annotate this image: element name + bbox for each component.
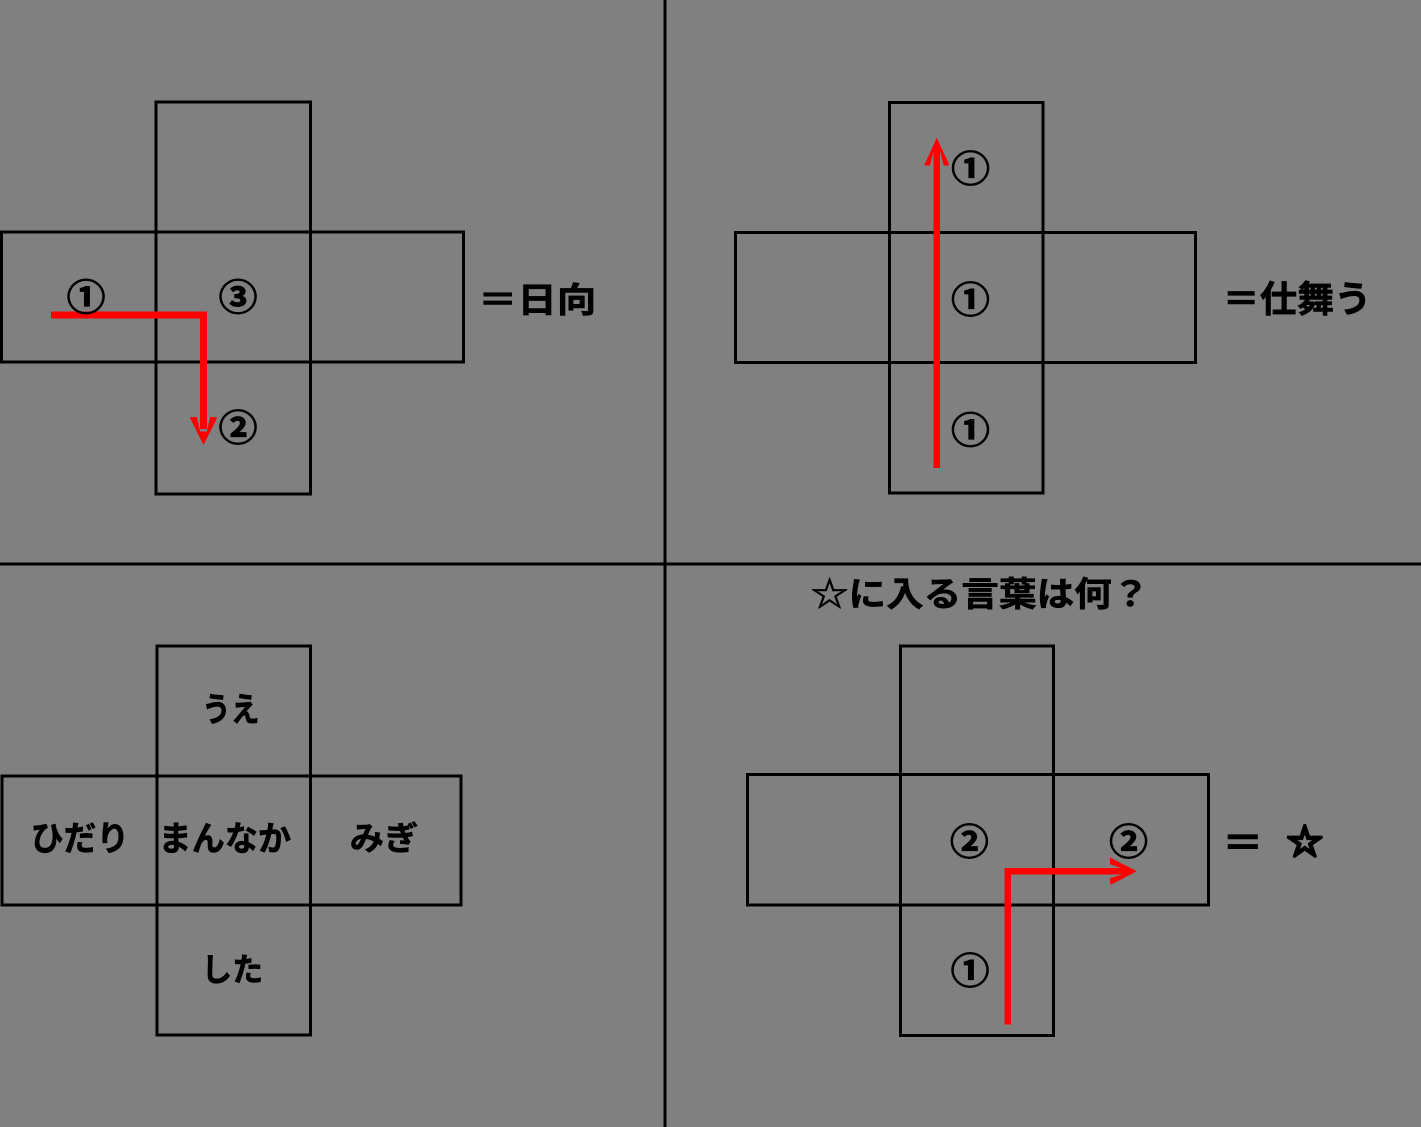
circled 2 in Q4 center cell — [951, 824, 988, 859]
text =Hinata (Q1 equation) — [484, 283, 593, 316]
Q2 red arrow shaft — [934, 149, 941, 469]
title question text (Q4) — [812, 577, 1140, 610]
text ue (Q3 top box) — [206, 694, 257, 724]
quadrant divider vertical — [664, 0, 667, 1127]
circled 2 in Q4 right cell — [1110, 824, 1147, 859]
Q1 middle row — [2, 232, 464, 362]
Q3 middle row — [2, 776, 461, 905]
circled 1 in Q2 center cell — [952, 282, 989, 317]
Q4 bottom box — [901, 905, 1054, 1036]
Q3 bottom box — [157, 905, 311, 1035]
circled 1 in Q1 left cell — [68, 279, 105, 314]
text migi (Q3 right cell) — [351, 821, 417, 852]
Q1 top box — [156, 102, 311, 232]
Q1 middle row inner line left — [155, 232, 158, 362]
Q3 middle row inner line right — [309, 776, 312, 905]
Q1 red arrow shaft — [51, 315, 204, 429]
Q3 middle row inner line left — [156, 776, 159, 905]
equals sign (Q4 equation) — [1228, 835, 1257, 849]
text mannaka (Q3 center cell) — [164, 822, 291, 853]
circled 2 in Q1 bottom box — [220, 410, 257, 445]
Q4 middle row inner line left — [899, 775, 902, 906]
Q2 bottom box — [890, 363, 1044, 494]
Q4 middle row inner line right — [1052, 775, 1055, 906]
Q2 red arrow head — [924, 138, 949, 166]
Q2 middle row inner line left — [888, 233, 891, 363]
Q2 middle row inner line right — [1042, 233, 1045, 363]
Q3 top box — [157, 646, 311, 776]
Q1 bottom box — [156, 362, 311, 494]
Q4 top box — [901, 646, 1054, 775]
text hidari (Q3 left cell) — [34, 822, 123, 852]
circled 1 in Q4 bottom box — [952, 953, 989, 988]
Q4 red arrow shaft — [1008, 871, 1125, 1024]
quadrant divider horizontal — [0, 563, 1421, 566]
text =Shimau (Q2 equation) — [1228, 281, 1365, 316]
Q2 top box — [890, 103, 1044, 233]
Q4 red arrow head — [1110, 858, 1137, 884]
Q1 red arrow head — [190, 417, 217, 445]
Q1 middle row inner line right — [309, 232, 312, 362]
bold white star glyph — [1288, 825, 1321, 856]
Q2 middle row — [736, 233, 1196, 363]
circled 3 in Q1 center cell — [220, 279, 257, 314]
circled 1 in Q2 top box — [952, 151, 989, 186]
text shita (Q3 bottom box) — [208, 955, 261, 984]
Q4 middle row — [748, 775, 1209, 906]
circled 1 in Q2 bottom box — [952, 412, 989, 447]
star symbol (Q4 equation), drawn bold — [1288, 825, 1321, 856]
